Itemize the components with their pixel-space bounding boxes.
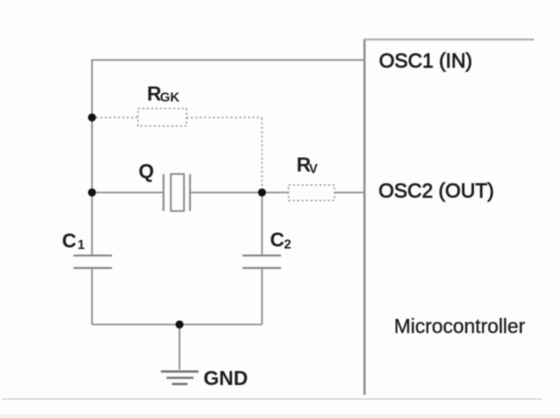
crystal Q	[164, 174, 191, 211]
microcontroller U1 boundary	[364, 39, 534, 395]
resistor RGK dashed wire down to node B	[261, 118, 263, 189]
svg-text:1: 1	[78, 237, 85, 252]
label RGK	[147, 83, 180, 105]
wire: resistor RV to OSC2 pin	[334, 192, 364, 194]
capacitor C1	[74, 256, 113, 269]
svg-text:C: C	[62, 230, 76, 252]
svg-text:Microcontroller: Microcontroller	[394, 316, 525, 338]
junction node A left rail at crystal	[88, 189, 96, 197]
svg-text:C: C	[270, 230, 284, 252]
capacitor C2	[243, 256, 282, 269]
svg-text:Q: Q	[139, 161, 155, 183]
svg-text:GND: GND	[204, 368, 248, 390]
resistor RV dashed body	[289, 185, 335, 201]
wire: crystal right to node B	[190, 192, 262, 194]
svg-text:2: 2	[284, 237, 291, 252]
wire top: node OSC1 to left rail	[92, 60, 364, 255]
ground symbol	[161, 372, 199, 385]
resistor RGK dashed wire right	[187, 117, 263, 119]
resistor RGK dashed body	[138, 109, 187, 127]
junction node at ground bus	[176, 321, 184, 329]
wire: C1 bottom down	[91, 268, 93, 325]
wire bottom: C1 to C2 ground bus	[92, 324, 262, 326]
label RV	[297, 155, 319, 177]
junction node at RGK tap on left rail	[88, 114, 96, 122]
junction node B crystal right	[258, 189, 266, 197]
wire: left rail to crystal left	[92, 192, 164, 194]
resistor RGK dashed wire left	[96, 117, 138, 119]
wire: node B to resistor RV	[262, 192, 289, 194]
wire: C2 bottom down	[261, 268, 263, 325]
svg-text:GK: GK	[160, 90, 180, 105]
wire: ground stem	[179, 325, 181, 370]
svg-text:V: V	[309, 161, 318, 176]
label C2	[270, 230, 291, 252]
label C1	[62, 230, 85, 252]
svg-text:OSC1 (IN): OSC1 (IN)	[379, 51, 472, 73]
wire: node B down to C2	[261, 193, 263, 256]
svg-text:OSC2 (OUT): OSC2 (OUT)	[379, 181, 495, 203]
